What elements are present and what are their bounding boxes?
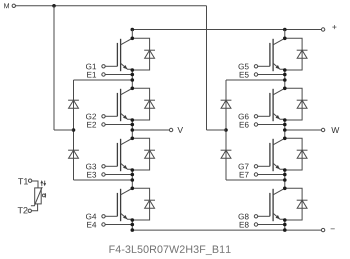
label G5 — [238, 64, 248, 70]
label + — [332, 25, 336, 29]
wire + rail — [132, 29, 321, 31]
thermistor theta mark — [42, 193, 45, 197]
junction E8 tap — [283, 223, 287, 227]
gate terminal G4 — [102, 215, 105, 218]
diode D1 — [144, 50, 155, 58]
wire emitter lead E8 — [258, 224, 285, 226]
junction clamp midpoint node (left) — [72, 128, 76, 132]
label G2 — [86, 114, 96, 120]
wire M drop vertical (left) — [53, 6, 55, 130]
wire clamp chain vertical (left) — [73, 80, 75, 180]
junction E1 tap — [131, 73, 135, 77]
gate terminal G7 — [254, 165, 257, 168]
diode D5 — [297, 50, 308, 58]
junction emitter of Q2 — [131, 118, 135, 122]
emitter terminal E3 — [102, 173, 105, 176]
junction collector of Q3 — [131, 137, 135, 141]
junction E2 tap — [131, 123, 135, 127]
terminal V — [169, 128, 172, 131]
wire M rail — [16, 5, 207, 7]
junction E6 tap — [283, 123, 287, 127]
junction clamp midpoint node (right) — [224, 128, 228, 132]
thermistor up arrow — [40, 180, 43, 186]
wire M to clamp midpoint (left) — [54, 129, 74, 131]
label E6 — [240, 122, 249, 128]
junction E5 tap — [283, 73, 287, 77]
junction E7 tap — [283, 173, 287, 177]
wire right bus segment below stage 1 — [284, 70, 286, 88]
diode D6 — [297, 100, 308, 108]
wire diode branch of Q6 — [285, 88, 302, 120]
junction emitter of Q8 — [283, 218, 287, 222]
label M — [4, 3, 9, 8]
label T1 — [18, 178, 28, 184]
wire - rail — [132, 229, 321, 231]
wire clamp bottom connect (right) — [226, 179, 285, 181]
diode D4 — [144, 200, 155, 208]
gate terminal G2 — [102, 115, 105, 118]
gate terminal G3 — [102, 165, 105, 168]
gate terminal G5 — [254, 65, 257, 68]
wire left bus segment below stage 2 — [131, 120, 133, 138]
wire diode branch of Q5 — [285, 38, 302, 70]
diode D12 (right clamp lower) — [221, 150, 232, 158]
wire left bus bottom segment — [131, 220, 133, 230]
wire clamp top connect (right) — [226, 79, 285, 81]
junction collector of Q5 — [283, 37, 287, 41]
wire emitter lead E6 — [258, 124, 285, 126]
wire V tap — [132, 129, 169, 131]
diode D2 — [144, 100, 155, 108]
label W — [331, 127, 339, 133]
emitter terminal E7 — [254, 173, 257, 176]
IGBT Q7 — [270, 138, 285, 171]
junction + rail right bus — [283, 28, 287, 32]
junction emitter of Q6 — [283, 118, 287, 122]
label E5 — [240, 72, 249, 78]
terminal T2 — [28, 209, 31, 212]
wire diode branch of Q1 — [132, 38, 149, 70]
wire left bus segment below stage 1 — [131, 70, 133, 88]
wire right bus segment below stage 2 — [284, 120, 286, 138]
diode D7 — [297, 150, 308, 158]
label V — [177, 127, 183, 133]
junction clamp top at bus (left) — [131, 78, 135, 82]
gate terminal G1 — [102, 65, 105, 68]
emitter terminal E4 — [102, 223, 105, 226]
label E3 — [87, 172, 96, 178]
wire M drop vertical (right) — [206, 6, 208, 130]
IGBT Q4 — [117, 188, 132, 221]
wire emitter lead E3 — [105, 174, 132, 176]
junction clamp top at bus (right) — [283, 78, 287, 82]
junction E4 tap — [131, 223, 135, 227]
wire gate lead G8 — [258, 215, 270, 217]
label T2 — [18, 207, 28, 213]
wire right bus: + rail to Q collector — [284, 30, 286, 39]
emitter terminal E5 — [254, 73, 257, 76]
wire left bus: + rail to Q collector — [131, 30, 133, 39]
junction - rail left bus — [131, 228, 135, 232]
wire gate lead G1 — [105, 65, 117, 67]
junction E3 tap — [131, 173, 135, 177]
emitter terminal E6 — [254, 123, 257, 126]
diode D9 (left clamp upper) — [68, 100, 79, 108]
diode D11 (right clamp upper) — [221, 100, 232, 108]
terminal + — [321, 28, 324, 31]
wire emitter lead E1 — [105, 74, 132, 76]
diode D8 — [297, 200, 308, 208]
junction collector of Q8 — [283, 187, 287, 191]
label E8 — [240, 222, 249, 228]
IGBT Q6 — [270, 88, 285, 121]
emitter terminal E1 — [102, 73, 105, 76]
junction M rail / left drop — [52, 4, 56, 8]
label - — [331, 228, 335, 231]
wire M to clamp midpoint (right) — [207, 129, 227, 131]
wire emitter lead E5 — [258, 74, 285, 76]
junction V tap at bus — [131, 128, 135, 132]
wire left bus segment below stage 3 — [131, 170, 133, 188]
wire T1 lead — [32, 181, 38, 188]
wire gate lead G2 — [105, 115, 117, 117]
junction emitter of Q7 — [283, 168, 287, 172]
wire gate lead G5 — [258, 65, 270, 67]
wire diode branch of Q2 — [132, 88, 149, 120]
junction clamp bottom at bus (left) — [131, 178, 135, 182]
junction - rail right bus — [283, 228, 287, 232]
thermistor down arrow — [43, 181, 46, 187]
label E4 — [87, 222, 96, 228]
junction emitter of Q3 — [131, 168, 135, 172]
terminal W — [321, 128, 324, 131]
IGBT Q2 — [117, 88, 132, 121]
emitter terminal E8 — [254, 223, 257, 226]
junction collector of Q4 — [131, 187, 135, 191]
junction collector of Q7 — [283, 137, 287, 141]
label E1 — [87, 72, 96, 78]
terminal - — [321, 228, 324, 231]
wire clamp top connect (left) — [74, 79, 133, 81]
wire emitter lead E2 — [105, 124, 132, 126]
wire right bus segment below stage 3 — [284, 170, 286, 188]
label G7 — [238, 164, 248, 170]
label G1 — [86, 64, 96, 70]
IGBT Q1 — [117, 38, 132, 71]
wire T2 lead — [32, 204, 38, 211]
wire emitter lead E7 — [258, 174, 285, 176]
wire gate lead G3 — [105, 165, 117, 167]
wire diode branch of Q7 — [285, 138, 302, 170]
IGBT Q8 — [270, 188, 285, 221]
label E2 — [87, 122, 96, 128]
wire diode branch of Q3 — [132, 138, 149, 170]
junction W tap at bus — [283, 128, 287, 132]
junction clamp bottom at bus (right) — [283, 178, 287, 182]
gate terminal G6 — [254, 115, 257, 118]
IGBT Q3 — [117, 138, 132, 171]
junction emitter of Q1 — [131, 68, 135, 72]
junction emitter of Q5 — [283, 68, 287, 72]
wire diode branch of Q4 — [132, 188, 149, 220]
label G8 — [238, 214, 248, 220]
label part number F4-3L50R07W2H3F_B11 — [109, 245, 230, 255]
thermistor R(NTC) body — [35, 188, 42, 204]
wire gate lead G4 — [105, 215, 117, 217]
wire W tap — [285, 129, 322, 131]
junction collector of Q6 — [283, 87, 287, 91]
thermistor NTC slash — [31, 187, 42, 206]
terminal M — [12, 4, 15, 7]
wire gate lead G7 — [258, 165, 270, 167]
junction emitter of Q4 — [131, 218, 135, 222]
wire gate lead G6 — [258, 115, 270, 117]
wire emitter lead E4 — [105, 224, 132, 226]
wire diode branch of Q8 — [285, 188, 302, 220]
IGBT Q5 — [270, 38, 285, 71]
diode D3 — [144, 150, 155, 158]
junction collector of Q1 — [131, 37, 135, 41]
label G3 — [86, 164, 96, 170]
emitter terminal E2 — [102, 123, 105, 126]
label G6 — [238, 114, 248, 120]
wire clamp chain vertical (right) — [225, 80, 227, 180]
junction + rail left bus — [131, 28, 135, 32]
label E7 — [240, 172, 249, 178]
junction collector of Q2 — [131, 87, 135, 91]
wire right bus bottom segment — [284, 220, 286, 230]
terminal T1 — [28, 179, 31, 182]
diode D10 (left clamp lower) — [68, 150, 79, 158]
label G4 — [86, 214, 96, 220]
wire clamp bottom connect (left) — [74, 179, 133, 181]
gate terminal G8 — [254, 215, 257, 218]
